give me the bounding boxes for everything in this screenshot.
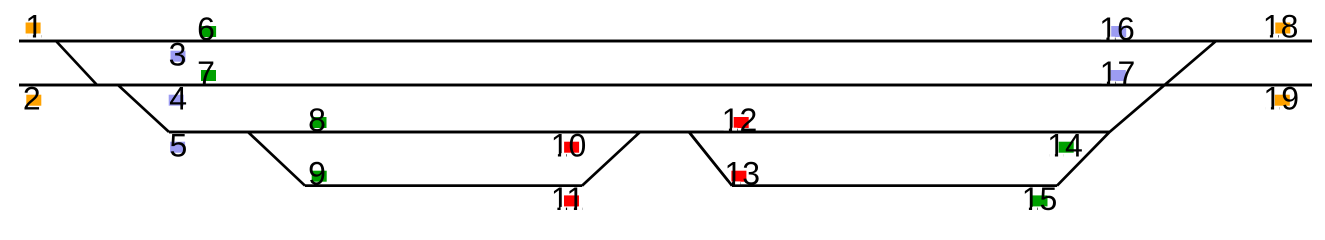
- white mask removing serif foot of digit 1 in label 1: [28, 34, 33, 38]
- track 2 (second main line): [19, 84, 1312, 87]
- signal marker 5 (#9C9CF2): [170, 142, 185, 153]
- track 3 (loop line): [169, 131, 1109, 134]
- track 4 right redraw over masks: [732, 184, 1057, 187]
- svg-text:18: 18: [1263, 9, 1299, 45]
- signal marker 1 (#FFA200): [26, 23, 41, 34]
- track 3 redraw over masks: [169, 131, 1109, 134]
- track 1 redraw over masks: [19, 40, 1312, 43]
- track 1 (top main line): [19, 40, 1312, 43]
- switch diagonal track4 to track3, middle up: [582, 132, 640, 186]
- white mask removing serif foot of digit 1 in label 18: [1265, 34, 1270, 38]
- white mask removing serif foot of digit 1 in label 10: [553, 153, 558, 157]
- signal marker 2 (#FFA200): [26, 95, 41, 106]
- white mask removing serif foot of digit 1 in label 15: [1024, 207, 1029, 211]
- switch diagonal track3 to track4, middle down: [689, 132, 732, 186]
- signal marker 8 (#00A000): [312, 117, 327, 128]
- track 4 right segment (siding): [732, 184, 1057, 187]
- signal marker 3 (#9C9CF2): [171, 51, 186, 62]
- white mask removing serif foot of digit 1 in label 16: [1101, 37, 1106, 41]
- switch diagonal track3 to track4, left: [248, 132, 305, 186]
- signal marker 12 (#FF0000): [734, 117, 749, 128]
- signal marker 4 (#9C9CF2): [169, 95, 184, 106]
- switch diagonal track2 to track3, left: [118, 85, 169, 132]
- signal marker 6 (#00A000): [201, 26, 216, 37]
- track 4 left redraw over masks: [305, 184, 582, 187]
- signal marker 18 (#FFA200): [1275, 23, 1290, 34]
- white mask removing serif foot of digit 1 in label 14: [1050, 153, 1055, 157]
- signal marker 15 (#00A000): [1033, 195, 1048, 206]
- signal marker 11 (#FF0000): [564, 195, 579, 206]
- signal marker 19 (#FFA200): [1275, 95, 1290, 106]
- signal marker 17 (#9C9CF2): [1111, 70, 1126, 81]
- switch diagonal track4 to track3 to track1, right leg crossing track 2: [1057, 41, 1216, 186]
- svg-text:1: 1: [25, 9, 43, 45]
- white mask removing serif foot of digit 1 in label 11a: [552, 207, 557, 211]
- white mask removing serif foot of digit 1 in label 11b: [569, 207, 574, 211]
- track 4 left segment (siding): [305, 184, 582, 187]
- signal marker 16 (#9C9CF2): [1111, 26, 1126, 37]
- signal marker 7 (#00A000): [201, 70, 216, 81]
- white mask removing serif foot of digit 1 in label 13: [727, 181, 732, 185]
- switch diagonal track3 to track4 middle down, redraw over masks: [689, 132, 732, 186]
- signal marker 14 (#00A000): [1059, 142, 1074, 153]
- track 2 redraw over masks: [19, 84, 1312, 87]
- white mask removing serif foot of digit 1 in label 19: [1266, 106, 1271, 110]
- signal marker 9 (#00A000): [312, 171, 327, 182]
- signal marker 13 (#FF0000): [731, 171, 746, 182]
- switch diagonal track1 to track2, left crossover: [56, 41, 97, 85]
- signal marker 10 (#FF0000): [564, 142, 579, 153]
- white mask removing serif foot of digit 1 in label 17: [1102, 81, 1107, 85]
- white mask removing serif foot of digit 1 in label 12: [724, 128, 729, 132]
